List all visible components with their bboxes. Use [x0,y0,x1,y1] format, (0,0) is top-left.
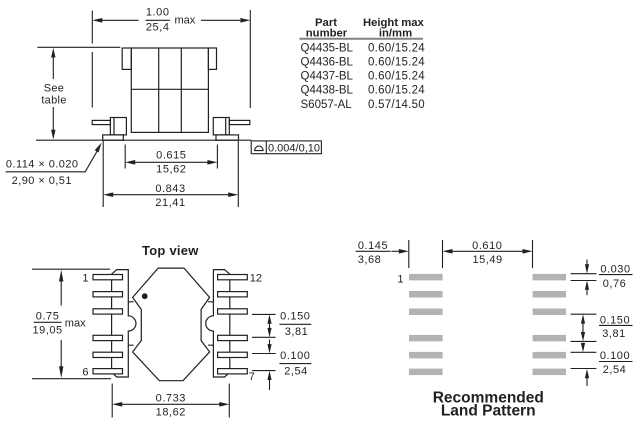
svg-text:0.100: 0.100 [600,350,630,362]
land pattern: right pad column [533,274,566,375]
land pattern title [433,390,544,420]
land pattern: left pad column [409,274,443,375]
svg-text:max: max [65,318,86,330]
svg-text:0.60/15.24: 0.60/15.24 [368,57,425,69]
svg-text:Q4437-BL: Q4437-BL [301,71,354,83]
svg-text:3,81: 3,81 [602,328,626,340]
svg-text:0.150: 0.150 [600,314,630,326]
svg-text:0.004/0,10: 0.004/0,10 [268,143,320,155]
svg-text:Q4435-BL: Q4435-BL [301,43,354,55]
svg-text:3,68: 3,68 [358,254,382,266]
land pattern: dimension 0.030/0,76 [571,260,633,296]
svg-text:7: 7 [249,371,255,383]
front view: right foot pad [216,135,239,140]
svg-text:Land Pattern: Land Pattern [441,403,536,420]
svg-text:0.733: 0.733 [156,392,186,404]
top view: pitch dimension 0.150/3,81 [252,310,311,338]
flatness callout frame 0.004/0,10 [251,141,321,155]
part number table [300,17,426,111]
svg-text:0.030: 0.030 [600,263,630,275]
svg-text:15,49: 15,49 [472,254,502,266]
svg-text:0.60/15.24: 0.60/15.24 [368,85,425,97]
top view: left flange edge ticks [128,302,133,345]
svg-text:S6057-AL: S6057-AL [301,99,353,111]
svg-text:Q4438-BL: Q4438-BL [301,85,354,97]
svg-text:0.114 × 0.020: 0.114 × 0.020 [6,158,79,170]
svg-text:2,54: 2,54 [284,366,308,378]
front view: left terminal block [110,118,126,135]
svg-text:Q4436-BL: Q4436-BL [301,57,354,69]
svg-text:1.00: 1.00 [146,7,170,19]
svg-text:0.75: 0.75 [36,310,60,322]
svg-text:0.145: 0.145 [358,240,388,252]
svg-text:0.57/14.50: 0.57/14.50 [368,99,425,111]
land pattern: dimension 0.100/2,54 [571,343,633,386]
svg-text:15,62: 15,62 [156,164,186,176]
svg-text:1: 1 [397,273,403,285]
front view: right top flange tab [208,48,216,69]
svg-text:Top view: Top view [142,243,199,258]
svg-text:6: 6 [82,367,88,379]
front view: core vertical divider right [180,48,182,132]
svg-text:1: 1 [82,273,88,285]
front view: core vertical divider left [158,48,160,132]
front view: left pin [92,120,110,124]
svg-text:0,76: 0,76 [603,278,627,290]
svg-text:12: 12 [250,273,262,285]
svg-text:0.150: 0.150 [280,310,310,322]
front view: left top flange tab [122,48,131,69]
front view: right terminal block [213,118,229,135]
svg-text:0.843: 0.843 [155,183,185,195]
svg-text:0.60/15.24: 0.60/15.24 [368,43,425,55]
front view: bobbin mid line [131,88,208,90]
top view: pitch dimension 0.100/2,54 [252,340,311,391]
svg-text:18,62: 18,62 [156,407,186,419]
svg-text:max: max [175,15,196,27]
svg-text:2,90 × 0,51: 2,90 × 0,51 [12,175,72,187]
front view: lead size callout 0.114 x 0.020 [6,143,102,188]
land pattern: dimension 0.150/3,81 [571,314,633,341]
front view: dimension 1.00/25,4 max [92,7,250,108]
front view: right pin [229,120,250,124]
svg-text:0.60/15.24: 0.60/15.24 [368,71,425,83]
svg-text:19,05: 19,05 [32,325,62,337]
svg-text:table: table [41,94,66,106]
top view: left bobbin rail [112,270,136,377]
top view: dimension 0.75/19,05 max [32,269,111,379]
front view: core body outline [122,48,216,132]
front view: seating plane line [36,139,251,141]
svg-text:2,54: 2,54 [603,364,627,376]
svg-text:0.610: 0.610 [472,240,502,252]
svg-text:3,81: 3,81 [285,326,309,338]
front view: left foot pad [103,135,124,140]
top view: dimension 0.733/18,62 [112,384,229,419]
svg-text:0.615: 0.615 [156,150,186,162]
top view: left pins 1-6 [93,275,123,374]
svg-text:21,41: 21,41 [155,197,185,209]
top view: right flange edge ticks [208,302,213,345]
front view: dimension 0.615/15,62 [125,145,217,176]
top view: pin 1 polarity dot [142,293,148,299]
front view: See table height dimension [37,47,120,139]
land pattern: dimension 0.145/3,68 [356,240,409,266]
top view: right pins 7-12 [218,275,248,374]
land pattern: dimension 0.610/15,49 [409,240,533,268]
top view: core octagon body [133,268,210,381]
svg-text:0.100: 0.100 [280,350,310,362]
top view: right bobbin rail [206,270,230,377]
svg-text:See: See [44,82,64,94]
svg-text:25,4: 25,4 [146,22,170,34]
front view: dimension 0.843/21,41 [103,141,238,209]
